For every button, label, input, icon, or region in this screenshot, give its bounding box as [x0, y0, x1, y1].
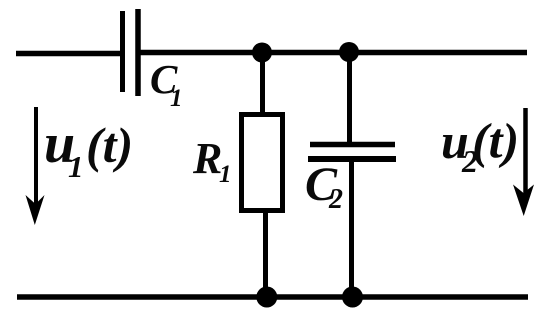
capacitor C2 top plate [310, 142, 395, 148]
capacitor C1 left plate [120, 11, 125, 92]
resistor R1 body [242, 115, 283, 211]
label R1 [192, 134, 232, 188]
label C2 [305, 158, 343, 215]
label u1(t) [44, 113, 133, 184]
capacitor C1 right plate [135, 9, 141, 96]
svg-text:1: 1 [68, 149, 84, 184]
node C (bottom junction at R1) [256, 287, 277, 308]
wire: top rail right segment (C1 to output) [140, 50, 527, 56]
node B (top junction at C2) [339, 42, 359, 62]
arrow u2 shaft [523, 108, 528, 196]
wire: bottom rail [17, 294, 528, 300]
wire: top rail left segment (input to C1) [16, 51, 122, 57]
svg-text:2: 2 [328, 184, 343, 215]
arrow u1 shaft [34, 107, 38, 205]
label C1 [150, 56, 183, 112]
arrow u1 head [26, 195, 45, 225]
node D (bottom junction at C2) [342, 287, 363, 308]
label u2(t) [441, 113, 519, 180]
svg-text:1: 1 [219, 161, 232, 188]
svg-text:R: R [192, 134, 222, 183]
wire: node B down to C2 [347, 52, 352, 143]
node A (top junction at R1) [252, 43, 272, 63]
wire: R1 down to bottom rail [263, 210, 268, 296]
wire: C2 down to bottom rail [349, 161, 354, 296]
svg-text:1: 1 [170, 85, 183, 112]
wire: node A down to R1 [260, 52, 265, 114]
arrow u2 head [513, 185, 534, 217]
capacitor C2 bottom plate [308, 156, 396, 162]
svg-text:(t): (t) [472, 113, 519, 169]
svg-text:(t): (t) [86, 117, 133, 173]
